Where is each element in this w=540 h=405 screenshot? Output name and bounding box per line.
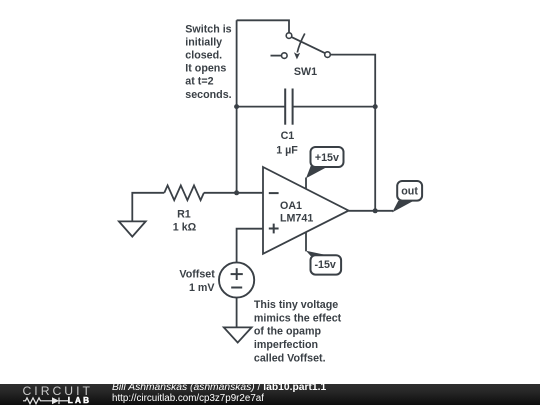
svg-text:seconds.: seconds. [185,89,231,101]
svg-text:of the opamp: of the opamp [254,326,322,338]
svg-text:C1: C1 [281,130,295,142]
svg-text:R1: R1 [177,208,191,220]
svg-text:1 kΩ: 1 kΩ [173,221,197,233]
svg-text:It opens: It opens [185,63,226,75]
svg-text:-15v: -15v [314,259,335,271]
svg-text:initially: initially [185,36,222,48]
svg-text:out: out [401,185,418,197]
svg-text:1 mV: 1 mV [189,282,215,294]
svg-text:OA1: OA1 [280,200,302,212]
svg-text:SW1: SW1 [294,66,317,78]
svg-text:LM741: LM741 [280,213,313,225]
svg-text:1 µF: 1 µF [276,144,298,156]
svg-text:mimics the effect: mimics the effect [254,312,342,324]
svg-text:Switch is: Switch is [185,23,231,35]
svg-text:Voffset: Voffset [179,269,215,281]
svg-text:at t=2: at t=2 [185,76,213,88]
svg-text:This tiny voltage: This tiny voltage [254,299,338,311]
svg-text:+15v: +15v [315,152,339,164]
svg-text:imperfection: imperfection [254,339,318,351]
svg-text:called Voffset.: called Voffset. [254,352,326,364]
svg-text:closed.: closed. [185,50,222,62]
